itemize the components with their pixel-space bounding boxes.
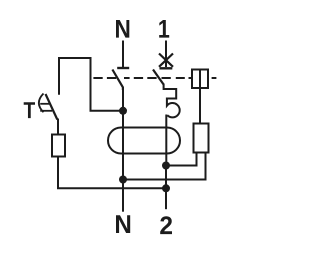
junction dot pole 1 / module: [162, 162, 170, 170]
wire resistor down and right to pole 1: [58, 157, 166, 189]
terminal label N (bottom): [116, 215, 130, 233]
fixed contact bar N pole: [117, 67, 129, 69]
wire N pole bottom: [122, 111, 124, 212]
trip relay solenoid: [192, 70, 208, 89]
junction dot N / test circuit: [119, 107, 127, 115]
junction dot N / module: [119, 176, 127, 184]
toroid current transformer: [108, 128, 180, 154]
terminal label 2 (bottom): [160, 216, 172, 234]
test button label T: [24, 102, 35, 118]
fixed contact bar pole 1: [160, 67, 173, 69]
contact blade N pole: [112, 70, 123, 91]
terminal label N (top): [116, 20, 129, 38]
electronic module: [194, 124, 209, 153]
wire test hump: [59, 58, 123, 111]
contact blade pole 1: [153, 70, 164, 85]
test button actuator: [39, 94, 44, 113]
wire pole 1 lower: [165, 166, 167, 210]
wire pole 1 through toroid: [165, 115, 167, 166]
wire module right pin to N junction: [123, 153, 206, 180]
dashed mechanical linkage: [93, 77, 216, 79]
wire module left pin to pole 1 junction: [166, 153, 197, 166]
test button blade: [46, 94, 58, 120]
wire relay to module: [199, 70, 201, 124]
wire N pole top: [122, 41, 124, 68]
wire test blade to resistor: [57, 119, 59, 135]
circuit-breaker X symbol pole 1: [159, 54, 173, 67]
wire N pole middle: [122, 88, 124, 111]
junction dot test / pole 1: [162, 184, 170, 192]
wire pole 1 top: [165, 41, 167, 68]
thermal overload element: [164, 84, 180, 118]
resistor R (test): [52, 135, 65, 157]
terminal label 1 (top): [159, 20, 169, 38]
